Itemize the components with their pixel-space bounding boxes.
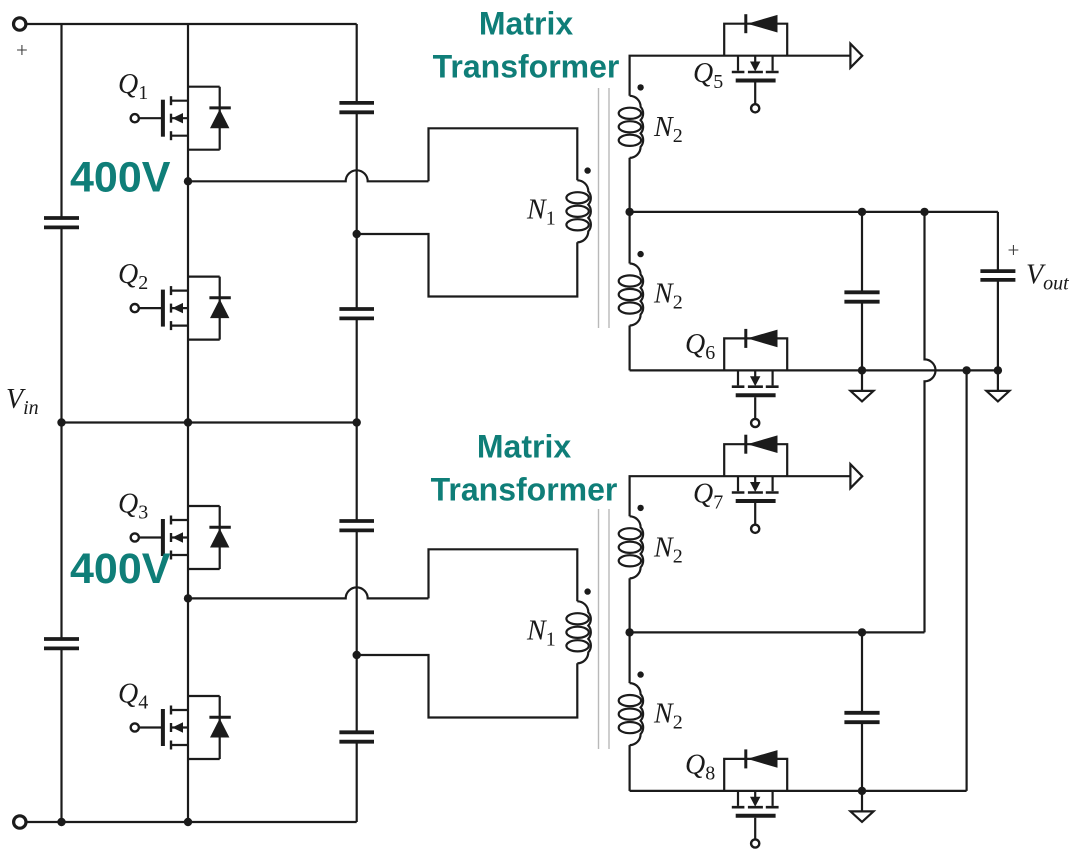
label Vin [6,384,39,419]
ground output 2 [851,791,874,822]
wire capacitor rail [356,24,358,822]
transistor Q8 [724,749,787,847]
node return2-cap junction [858,787,866,795]
node bottom-center junction [184,818,192,826]
wire half-bridge 1 to primary (hop over cap rail) [188,170,429,181]
wire N2c to output bus [628,578,630,632]
node bottom-left junction [57,818,65,826]
svg-text:Q1: Q1 [118,69,148,104]
polarity dot N2c [637,505,643,511]
wire primary loop 2 upper [429,549,578,601]
label N2d [653,698,683,733]
transistor Q6 [724,329,787,427]
wire N2a to output bus [628,158,630,212]
wire output bus 2 [630,631,925,633]
capacitor divider C2 [339,309,374,318]
node cap-mid-2 junction [353,651,361,659]
svg-text:+: + [16,38,28,62]
node bus2-secondary junction [625,628,633,636]
node bus1-cap junction [858,208,866,216]
ground Vout [986,370,1009,401]
label N1 bottom [526,616,556,651]
label + Vout [1008,238,1020,262]
wire return bus 2 [630,790,967,792]
wire primary loop 2 lower [357,655,578,718]
inductor N2d secondary [619,683,643,745]
capacitor divider C1 [339,103,374,112]
transistor Q7 [724,435,787,533]
node return1-cap junction [858,366,866,374]
label Q3 [118,489,148,524]
wire primary loop 1 lower [357,234,578,297]
node mid-left junction [57,418,65,426]
gate-drive arrow Q5 [850,44,862,68]
wire mid rail Vin node [62,421,357,423]
wire output cap 2 branch [861,632,863,791]
node bus1-interconnect junction [920,208,928,216]
polarity dot N1 bottom [584,588,590,594]
transistor Q1 [131,87,231,150]
svg-text:Matrix: Matrix [479,6,573,42]
wire secondary 1 top [630,56,851,96]
capacitor input C-top [44,218,79,227]
polarity dot N2d [637,671,643,677]
wire output cap 1 branch [861,212,863,371]
label Q6 [685,329,715,364]
core bottom transformer [599,509,610,749]
node return1-interconnect junction [962,366,970,374]
svg-text:N2: N2 [653,698,683,733]
svg-text:Q2: Q2 [118,259,148,294]
label 400V top [70,154,171,202]
svg-text:N2: N2 [653,279,683,314]
transistor Q2 [131,277,231,340]
label Q4 [118,679,148,714]
svg-text:Q3: Q3 [118,489,148,524]
inductor N2b secondary [619,264,643,326]
label 400V bottom [70,545,171,593]
label Q5 [693,58,723,93]
wire return bus 1 [630,369,998,371]
wire output bus 1 [630,211,998,213]
wire return interconnect [965,370,967,791]
label Q7 [693,479,723,514]
svg-text:Q6: Q6 [685,329,715,364]
svg-text:Q5: Q5 [693,58,723,93]
wire bus to N2b [628,212,630,264]
svg-text:Transformer: Transformer [433,48,620,84]
node mid-center junction [184,418,192,426]
capacitor input C-bottom [44,639,79,648]
polarity dot N2a [637,84,643,90]
inductor N1 primary (bottom transformer) [566,601,590,663]
label N2c [653,533,683,568]
input terminal - (bottom left) [14,816,26,828]
svg-text:Vout: Vout [1026,260,1069,295]
wire switch rail [187,24,189,822]
label N1 top [526,195,556,230]
polarity dot N1 top [584,167,590,173]
ground output 1 [851,370,874,401]
label Q2 [118,259,148,294]
transistor Q3 [131,506,231,569]
gate-drive arrow Q7 [850,464,862,488]
node half-bridge 2 [184,594,192,602]
svg-text:Q8: Q8 [685,750,715,785]
wire secondary 2 top [630,476,851,516]
wire N2d to return [628,745,630,791]
wire bottom input rail [26,821,356,823]
svg-text:Transformer: Transformer [431,472,618,508]
transistor Q4 [131,696,231,759]
svg-text:400V: 400V [70,154,171,202]
capacitor divider C4 [339,732,374,741]
wire bus interconnect (hop over return) [925,212,936,633]
svg-text:Vin: Vin [6,384,39,419]
core top transformer [599,88,610,328]
capacitor divider C3 [339,521,374,530]
transistor Q5 [724,14,787,112]
label Vout [1026,260,1069,295]
label Matrix Transformer top [433,6,620,85]
wire Vout branch [997,212,999,371]
wire bus to N2d [628,632,630,683]
wire left input rail [60,24,62,822]
svg-text:N1: N1 [526,195,556,230]
svg-text:400V: 400V [70,545,171,593]
svg-text:+: + [1008,238,1020,262]
svg-text:Q4: Q4 [118,679,148,714]
svg-text:N2: N2 [653,533,683,568]
node bus1-secondary junction [625,208,633,216]
capacitor output C6 [844,713,879,722]
label Q1 [118,69,148,104]
node cap-mid-1 junction [353,230,361,238]
wire primary loop 1 upper [429,128,578,181]
wire half-bridge 2 to primary (hop over cap rail) [188,587,429,598]
capacitor Vout [980,271,1015,280]
inductor N2a secondary [619,96,643,158]
svg-text:N2: N2 [653,112,683,147]
inductor N2c secondary [619,516,643,578]
wire top input rail [26,23,357,25]
node bus2-cap junction [858,628,866,636]
label N2b [653,279,683,314]
svg-text:Q7: Q7 [693,479,723,514]
label Matrix Transformer bottom [431,429,618,508]
node half-bridge 1 [184,177,192,185]
svg-text:Matrix: Matrix [477,429,571,465]
node return1-Vout junction [994,366,1002,374]
node mid-caprail junction [353,418,361,426]
input terminal + (top left) [14,18,28,62]
wire N2b to return [628,326,630,371]
capacitor output C5 [844,292,879,301]
polarity dot N2b [637,251,643,257]
svg-text:N1: N1 [526,616,556,651]
label N2a [653,112,683,147]
label Q8 [685,750,715,785]
inductor N1 primary (top transformer) [566,180,590,242]
